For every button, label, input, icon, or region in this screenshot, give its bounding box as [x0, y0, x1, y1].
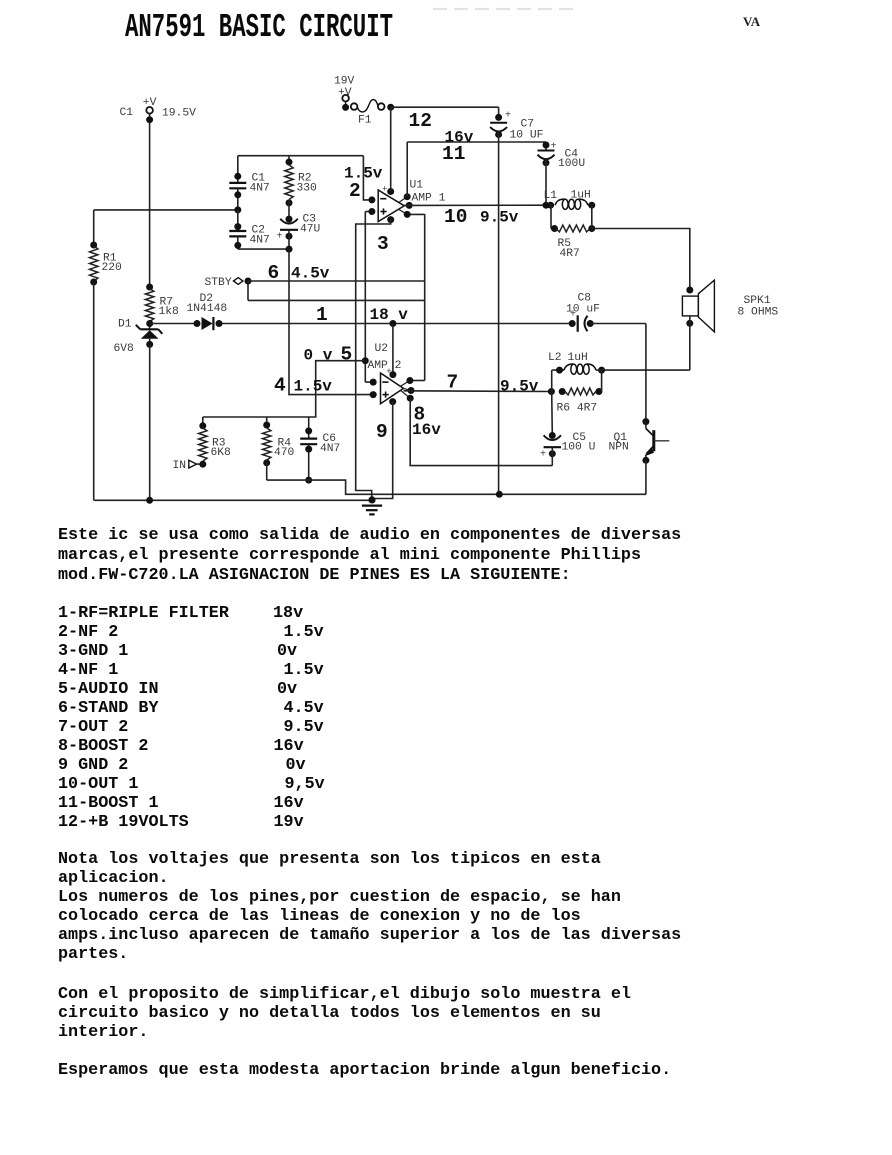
svg-text:8 OHMS: 8 OHMS: [738, 307, 779, 319]
wire: pin 2 feedback column: [363, 156, 372, 200]
inductor L1 1uH: [544, 190, 596, 210]
svg-text:C1: C1: [120, 107, 134, 119]
svg-text:+: +: [551, 142, 557, 153]
node: pin 5 audio-in junction: [362, 357, 369, 364]
op-amp U1 AMP 1: [368, 180, 445, 224]
resistor R4 470: [263, 417, 295, 480]
svg-text:220: 220: [102, 262, 123, 274]
wire: U2 ground pin (pin 9) to ground: [372, 402, 393, 499]
svg-text:4N7: 4N7: [320, 443, 340, 455]
svg-text:47U: 47U: [300, 223, 320, 235]
paragraph 2: [58, 850, 601, 869]
wire: amp2 output to speaker: [602, 369, 690, 371]
svg-text:4N7: 4N7: [250, 235, 270, 247]
zener diode D1 6V8: [114, 319, 163, 501]
svg-text:19.5V: 19.5V: [162, 108, 196, 120]
speaker SPK1 8 OHMS: [682, 280, 778, 370]
paragraph 3: [58, 985, 631, 1004]
capacitor C3 47U: [277, 214, 321, 253]
wire: audio input line from C6 block: [203, 361, 365, 417]
paragraph 4: [58, 1061, 671, 1080]
wire: input block bottom to ground rail: [267, 480, 646, 494]
svg-text:1N4148: 1N4148: [187, 303, 228, 315]
svg-text:9.5v: 9.5v: [480, 209, 519, 227]
svg-text:1k8: 1k8: [159, 306, 180, 318]
svg-text:12: 12: [409, 110, 432, 132]
svg-text:4.5v: 4.5v: [291, 265, 330, 283]
fuse F1: [351, 100, 394, 127]
wire: amp1 output to speaker: [592, 229, 690, 291]
ground: [362, 496, 382, 514]
svg-text:16v: 16v: [412, 421, 441, 439]
svg-text:+V: +V: [338, 87, 352, 99]
capacitor C1 4N7: [229, 156, 270, 210]
svg-text:0 v: 0 v: [304, 347, 333, 365]
node IN audio terminal: [173, 460, 200, 472]
svg-text:+: +: [540, 449, 546, 460]
resistor R6 4R7: [552, 370, 603, 414]
svg-text:470: 470: [274, 447, 295, 459]
capacitor C2 4N7: [229, 210, 289, 249]
svg-text:3: 3: [377, 233, 389, 255]
svg-text:NPN: NPN: [609, 442, 629, 454]
title: [125, 9, 393, 48]
svg-text:9.5v: 9.5v: [500, 378, 539, 396]
svg-text:R6 4R7: R6 4R7: [557, 403, 598, 415]
wire: pin 11 boost line (16v): [407, 142, 546, 197]
svg-text:+V: +V: [143, 97, 157, 109]
op-amp U2 AMP 2: [368, 343, 415, 405]
node: C1/C2 junction: [234, 206, 241, 213]
capacitor C7 10 UF: [490, 111, 543, 495]
diode D2 1N4148: [187, 293, 228, 330]
node: 18v tap to U2 supply: [389, 320, 396, 375]
svg-text:5: 5: [341, 344, 353, 366]
wire: pin 8 boost line (16v) to C5: [410, 398, 552, 465]
svg-text:19V: 19V: [334, 76, 355, 88]
svg-text:AMP 2: AMP 2: [368, 360, 402, 372]
wire: R1 top to C1/C2 junction: [94, 209, 238, 211]
wire: +19V rail (pin 12): [391, 107, 499, 191]
svg-text:6: 6: [268, 262, 280, 284]
svg-text:7: 7: [447, 372, 459, 394]
svg-text:F1: F1: [358, 115, 372, 127]
wire: NF1 column (C3 to pin 4): [289, 249, 373, 395]
svg-text:330: 330: [297, 183, 318, 195]
svg-text:100 U: 100 U: [562, 442, 596, 454]
wire: pin 7 output line (9.5v): [404, 388, 555, 395]
svg-text:4N7: 4N7: [250, 182, 270, 194]
capacitor C6 4N7: [300, 417, 340, 484]
svg-text:4: 4: [274, 375, 286, 397]
svg-text:+: +: [382, 185, 387, 195]
svg-text:100U: 100U: [558, 158, 585, 170]
paragraph 1: [58, 526, 681, 545]
svg-text:+: +: [277, 232, 283, 243]
svg-text:U1: U1: [410, 180, 424, 192]
svg-text:SPK1: SPK1: [744, 295, 771, 307]
resistor R7: [145, 284, 179, 330]
wire: U1 ground pin (pin 3) to ground: [356, 220, 391, 500]
resistor R2 330: [285, 156, 317, 219]
svg-text:6K8: 6K8: [211, 447, 232, 459]
svg-text:10 UF: 10 UF: [510, 130, 544, 142]
svg-text:AMP 1: AMP 1: [412, 193, 446, 205]
wire: left ground rail: [94, 497, 372, 504]
resistor R3 6K8: [199, 417, 231, 468]
inductor L2 1uH: [548, 352, 605, 374]
svg-text:1uH: 1uH: [568, 352, 588, 364]
svg-text:IN: IN: [173, 460, 187, 472]
resistor R5 4R7: [551, 205, 595, 260]
wire: +V supply column top: [149, 114, 151, 288]
svg-text:U2: U2: [375, 343, 389, 355]
page mark VA: [743, 15, 760, 30]
wire: audio column (U1 + input to pin5 node): [365, 212, 373, 383]
svg-text:1: 1: [316, 304, 328, 326]
svg-text:10: 10: [444, 206, 467, 228]
pin list: [58, 604, 229, 623]
node STBY terminal: [205, 277, 252, 289]
node: ground rail junction (C7 return): [496, 491, 503, 498]
wire: pin 10 output line (9.5v): [404, 202, 551, 209]
svg-text:10 uF: 10 uF: [566, 304, 600, 316]
svg-text:D1: D1: [118, 319, 132, 331]
svg-text:L2: L2: [548, 352, 562, 364]
svg-text:1uH: 1uH: [571, 190, 591, 202]
svg-text:6V8: 6V8: [114, 343, 135, 355]
capacitor C5 100 U: [540, 392, 595, 466]
capacitor C8 10 uF: [566, 293, 646, 422]
resistor R1: [90, 210, 123, 500]
wire: stand-by net to both amps: [248, 214, 425, 381]
transistor Q1 NPN: [609, 418, 670, 494]
svg-text:18 v: 18 v: [370, 306, 409, 324]
svg-text:+: +: [505, 111, 511, 122]
wire: pin 1 ripple-filter line (18v): [150, 323, 573, 325]
svg-text:L1: L1: [544, 190, 558, 202]
node +V input terminal (19.5V): [120, 97, 197, 123]
svg-text:2: 2: [349, 180, 361, 202]
wire: feedback top rail (C1 to pin 2): [238, 155, 364, 157]
svg-text:9: 9: [376, 421, 388, 443]
svg-text:11: 11: [442, 143, 465, 165]
svg-text:4R7: 4R7: [560, 248, 580, 260]
capacitor C4 100U: [538, 142, 586, 206]
svg-text:1.5v: 1.5v: [294, 378, 333, 396]
svg-text:STBY: STBY: [205, 277, 232, 289]
node 19V fuse input: [334, 76, 355, 111]
